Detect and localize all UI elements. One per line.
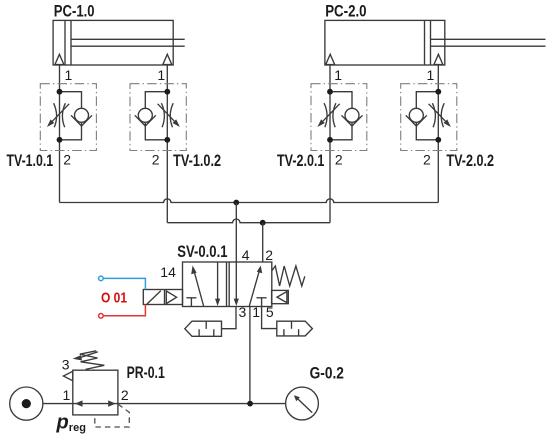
svg-text:PC-1.0: PC-1.0 — [54, 2, 95, 21]
flow control valve TV-2.0.1 enclosure — [311, 84, 367, 151]
wire PC-1.0 left port to bus A — [59, 65, 61, 203]
valve SV-0.0.1 body — [183, 262, 272, 307]
node TV-2.0.1 port 2 junction — [327, 137, 333, 143]
TV-1.0.2 adjustment arrow — [158, 104, 180, 127]
solenoid coil of SV-0.0.1 — [143, 290, 182, 305]
svg-text:PR-0.1: PR-0.1 — [127, 363, 165, 382]
TV-1.0.2 throttle — [161, 103, 173, 127]
svg-text:O 01: O 01 — [101, 290, 127, 307]
wire PC-2.0 left port to bus B — [329, 65, 331, 223]
svg-text:2: 2 — [423, 152, 431, 168]
node TV-1.0.2 port 1 junction — [164, 89, 170, 95]
svg-text:3: 3 — [239, 304, 247, 320]
pilot box right of SV-0.0.1 — [272, 290, 289, 303]
node bus A junction — [233, 200, 239, 206]
flow control valve TV-1.0.2 enclosure — [130, 84, 186, 151]
wire blue solenoid terminal to coil — [101, 278, 145, 289]
wire bus B (TV-1.0.2 / TV-2.0.1 to valve port 2) — [167, 219, 330, 223]
svg-text:1: 1 — [63, 387, 71, 403]
wire PC-2.0 right port to bus A — [437, 65, 439, 203]
svg-text:5: 5 — [266, 304, 274, 320]
PR-0.1 adjustment spring — [80, 351, 105, 370]
node TV-1.0.1 port 1 junction — [57, 89, 63, 95]
TV-1.0.2 check valve — [135, 108, 156, 126]
flow control valve TV-2.0.2 enclosure — [401, 84, 457, 151]
TV-1.0.1 check-valve branch wire — [60, 92, 82, 140]
svg-text:2: 2 — [63, 152, 71, 168]
cylinder PC-1.0 — [53, 20, 185, 65]
svg-text:1: 1 — [334, 67, 342, 83]
node TV-2.0.2 port 2 junction — [435, 137, 441, 143]
TV-2.0.1 check valve — [342, 108, 363, 126]
svg-text:G-0.2: G-0.2 — [310, 364, 344, 383]
TV-1.0.1 adjustment arrow — [47, 104, 69, 127]
wire bus B to valve port 2 — [262, 223, 264, 262]
node TV-1.0.2 port 2 junction — [164, 137, 170, 143]
TV-2.0.2 check-valve branch wire — [416, 92, 438, 140]
svg-text:14: 14 — [160, 264, 176, 280]
svg-text:TV-1.0.1: TV-1.0.1 — [7, 151, 54, 170]
silencer left — [185, 321, 222, 336]
TV-2.0.1 throttle — [324, 103, 336, 127]
TV-2.0.1 adjustment arrow — [317, 104, 339, 127]
svg-text:TV-1.0.2: TV-1.0.2 — [173, 151, 221, 170]
svg-text:1: 1 — [157, 67, 165, 83]
svg-text:1: 1 — [65, 67, 73, 83]
wire bus A to valve port 4 — [235, 203, 237, 263]
svg-text:1: 1 — [252, 304, 260, 320]
TV-1.0.1 throttle — [54, 103, 66, 127]
svg-text:2: 2 — [152, 152, 160, 168]
wire red solenoid terminal to coil — [101, 305, 145, 316]
svg-text:SV-0.0.1: SV-0.0.1 — [177, 242, 227, 261]
TV-2.0.1 check-valve branch wire — [330, 92, 352, 140]
TV-1.0.2 check-valve branch wire — [145, 92, 167, 140]
PR-0.1 pilot feedback dashed wire — [95, 404, 130, 427]
node supply junction — [247, 401, 253, 407]
svg-text:2: 2 — [265, 247, 273, 263]
svg-text:2: 2 — [121, 387, 129, 403]
svg-text:PC-2.0: PC-2.0 — [325, 2, 366, 21]
TV-2.0.2 adjustment arrow — [429, 104, 451, 127]
silencer right — [277, 321, 313, 336]
terminal blue — [99, 276, 104, 281]
pilot triangle left of SV-0.0.1 — [166, 291, 176, 304]
flow control valve TV-1.0.1 enclosure — [40, 84, 96, 151]
pressure gauge G-0.2 — [286, 387, 319, 420]
svg-text:p: p — [56, 412, 69, 434]
pressure regulator PR-0.1 — [63, 370, 118, 415]
svg-text:1: 1 — [427, 67, 435, 83]
node TV-1.0.1 port 2 junction — [57, 137, 63, 143]
wire PC-1.0 right port to bus B — [166, 65, 168, 223]
wire valve port 5 to right silencer — [262, 307, 277, 329]
svg-text:TV-2.0.2: TV-2.0.2 — [446, 151, 494, 170]
valve SV-0.0.1 right position flow arrows — [234, 262, 267, 307]
node TV-2.0.2 port 1 junction — [435, 89, 441, 95]
svg-text:2: 2 — [335, 152, 343, 168]
value label p reg — [56, 412, 86, 434]
valve SV-0.0.1 left position flow arrows — [186, 262, 220, 307]
wire valve port 1 supply drop — [249, 307, 251, 404]
cylinder PC-2.0 — [325, 20, 546, 65]
TV-2.0.2 check valve — [406, 108, 427, 126]
wire valve port 3 to left silencer — [222, 307, 237, 329]
svg-text:reg: reg — [69, 422, 86, 434]
svg-text:TV-2.0.1: TV-2.0.1 — [277, 151, 324, 170]
compressed air source — [10, 387, 43, 420]
svg-text:4: 4 — [242, 247, 250, 263]
TV-2.0.2 throttle — [432, 103, 444, 127]
return spring of SV-0.0.1 — [272, 266, 305, 286]
wire supply line — [43, 403, 286, 405]
svg-text:3: 3 — [62, 356, 70, 372]
terminal red — [99, 314, 104, 319]
PR-0.1 adjustment arrow — [73, 352, 98, 361]
wire bus A (TV-1.0.1 / TV-2.0.2 to valve port 4) — [60, 199, 439, 203]
node bus B junction — [260, 220, 266, 226]
TV-1.0.1 check valve — [71, 108, 92, 126]
node TV-2.0.1 port 1 junction — [327, 89, 333, 95]
